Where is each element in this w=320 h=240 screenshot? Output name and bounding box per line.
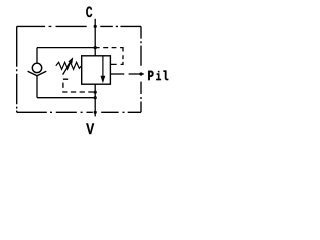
check valve ball — [32, 63, 41, 72]
enclosure border left (dash-dot) — [16, 26, 18, 112]
node junction C branch — [94, 46, 97, 49]
wire outlet vertical to V — [94, 84, 96, 116]
check valve seat — [28, 71, 47, 76]
wire check-valve upper vertical — [36, 48, 38, 64]
adjustment arrow through spring — [63, 57, 74, 74]
wire C port line — [94, 19, 96, 56]
node V on border — [94, 111, 97, 114]
port label V — [86, 123, 94, 134]
wire check-valve lower vertical — [36, 76, 38, 98]
wire bottom return horizontal — [37, 97, 95, 99]
enclosure border bottom (dash-dot) — [17, 111, 141, 113]
wire Pil line segment 2 — [129, 73, 144, 75]
node return junction — [94, 96, 97, 99]
enclosure border right (dash-dot) — [140, 26, 142, 112]
spring (adjustable) — [56, 62, 82, 69]
drain dashed line (left, to spring chamber) — [63, 79, 95, 92]
node drain junction — [94, 91, 97, 94]
port label C — [86, 6, 92, 17]
wire Pil line segment 1 — [110, 73, 124, 75]
valve envelope (relief valve body) — [82, 56, 111, 84]
flow path arrow inside valve — [101, 56, 106, 84]
enclosure border top (dash-dot) — [17, 25, 141, 27]
node Pil on border — [139, 72, 142, 75]
pilot dashed line (top right) — [95, 48, 123, 65]
node C on border — [94, 25, 97, 28]
port label Pil — [148, 71, 153, 80]
wire check-valve branch horizontal — [37, 47, 95, 49]
